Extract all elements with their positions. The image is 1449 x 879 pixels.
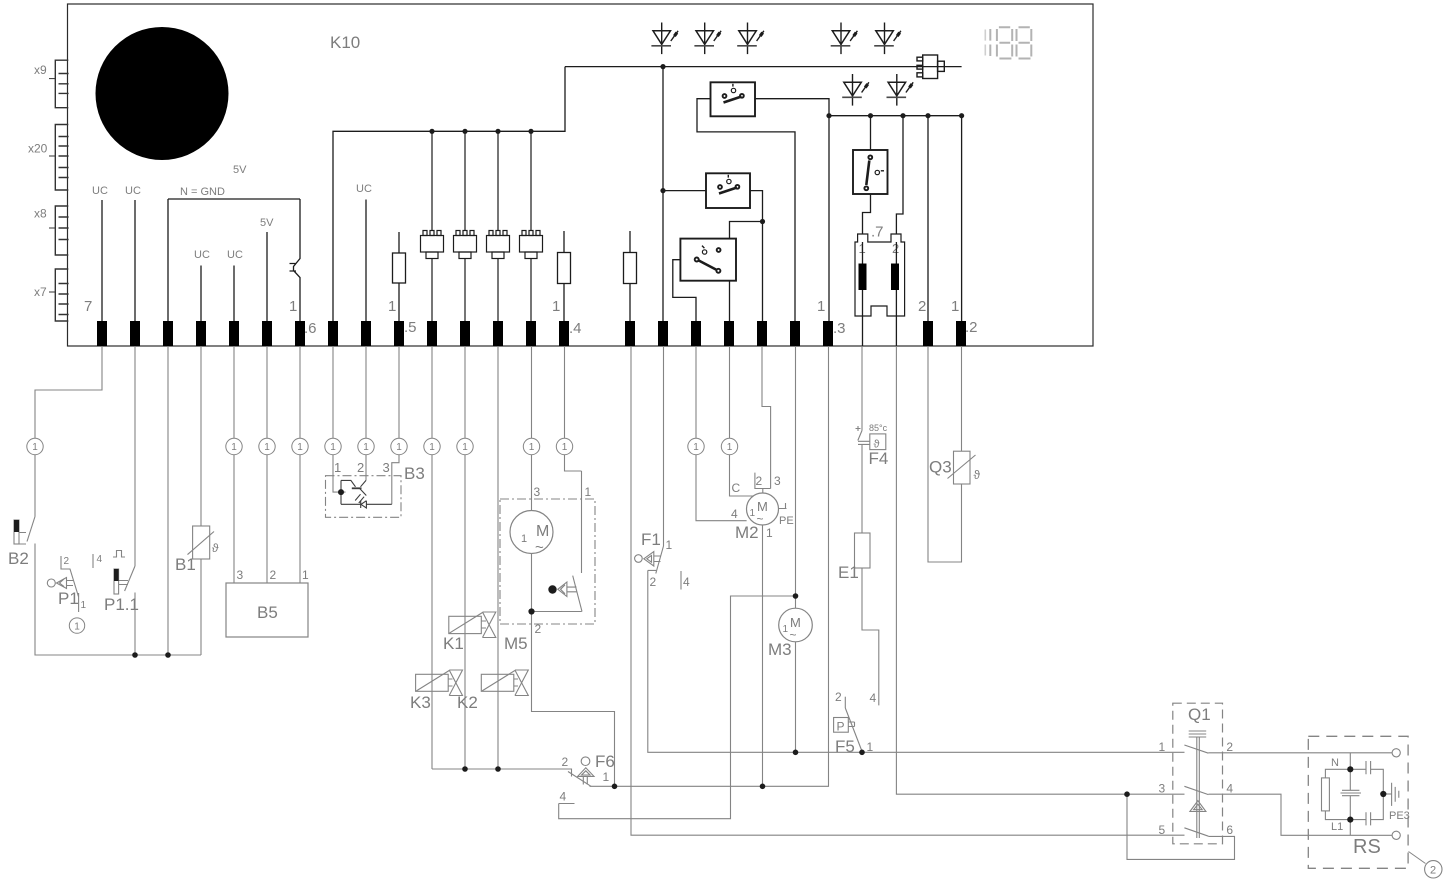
svg-text:7: 7 xyxy=(84,298,92,315)
F6 output line to pin828 riser xyxy=(590,346,829,786)
svg-text:PE3: PE3 xyxy=(1389,810,1410,822)
svg-text:3: 3 xyxy=(383,460,390,475)
svg-text:1: 1 xyxy=(32,442,38,453)
svg-text:F6: F6 xyxy=(595,752,615,771)
svg-text:~: ~ xyxy=(535,539,544,556)
svg-text:UC: UC xyxy=(194,249,210,261)
svg-text:4: 4 xyxy=(560,790,567,804)
svg-text:4: 4 xyxy=(683,575,690,589)
svg-text:N = GND: N = GND xyxy=(180,186,225,198)
svg-text:L1: L1 xyxy=(1331,821,1343,833)
M5.2 wire down to F6 line xyxy=(532,611,615,786)
wire bus2 to switch box xyxy=(870,116,872,150)
RS internals xyxy=(1322,753,1399,836)
svg-text:2: 2 xyxy=(357,460,364,475)
Q1 contact 1-2 xyxy=(1184,745,1208,753)
junction dots lower LED bus xyxy=(826,113,964,118)
top LED supply bus xyxy=(565,66,962,68)
svg-text:5V: 5V xyxy=(233,164,247,176)
svg-text:1: 1 xyxy=(334,460,341,475)
svg-text:1: 1 xyxy=(727,442,733,453)
svg-text:1: 1 xyxy=(429,442,435,453)
controller module K10 outline xyxy=(68,4,1094,346)
wire bus to pin 961 xyxy=(961,116,963,321)
seven segment display xyxy=(985,27,1031,58)
connector x20 xyxy=(49,125,69,191)
wire pin 234 to B5.3 xyxy=(233,346,235,583)
LED H5 xyxy=(874,23,901,55)
wire relay C left to pin 696 xyxy=(673,260,696,321)
svg-text:1: 1 xyxy=(388,298,396,315)
svg-text:x9: x9 xyxy=(34,63,47,77)
connector x7 xyxy=(49,269,69,321)
svg-text:1: 1 xyxy=(521,533,527,545)
F6 terminal 4 branch to M3 top xyxy=(559,596,796,819)
svg-text:2: 2 xyxy=(270,568,277,582)
wire pin 762 to M2.3 bracket xyxy=(762,346,771,489)
wire pin 267 to B5.2 xyxy=(266,346,268,583)
LED H3 xyxy=(737,23,764,55)
relay contact K-C box xyxy=(680,239,736,281)
svg-text:2: 2 xyxy=(918,298,926,315)
svg-text:1: 1 xyxy=(396,442,402,453)
X.7 pin 1 (black) xyxy=(859,264,867,291)
svg-text:B1: B1 xyxy=(175,555,196,574)
svg-text:2: 2 xyxy=(1226,740,1233,754)
wire bus to pin 828 xyxy=(828,116,830,321)
wire pin 465 through K1 to valve bus xyxy=(464,346,466,769)
junction dots external xyxy=(132,593,1130,797)
wire pin 498 through K2 to valve bus xyxy=(497,346,499,769)
net labels inside module xyxy=(92,164,372,261)
svg-text:1: 1 xyxy=(750,508,756,519)
svg-text:1: 1 xyxy=(603,770,610,784)
wire pin 432 through K3 to valve bus xyxy=(431,346,433,769)
svg-text:Q1: Q1 xyxy=(1188,705,1211,724)
svg-text:1: 1 xyxy=(363,442,369,453)
svg-text:x7: x7 xyxy=(34,285,47,299)
wire rings (connector bullets) xyxy=(27,438,738,454)
svg-text:2: 2 xyxy=(650,575,657,589)
wire bus to IC drivers xyxy=(333,67,565,321)
program disc (filled circle) xyxy=(96,27,229,160)
note circle 2 leader xyxy=(1409,852,1426,864)
F5 contact blade xyxy=(845,708,861,750)
LED H1 xyxy=(651,23,678,55)
thermal cutout Q3 xyxy=(948,451,976,484)
fill valve K1 xyxy=(449,612,496,638)
svg-text:2: 2 xyxy=(835,690,842,704)
svg-text:F5: F5 xyxy=(835,737,855,756)
svg-text:1: 1 xyxy=(562,442,568,453)
in-module wires group xyxy=(102,67,962,321)
wire pin 135 to P1.1 xyxy=(134,346,136,655)
E1 to F5 terminal 4 xyxy=(862,568,879,705)
wire bus to pin 928 xyxy=(927,116,929,321)
svg-text:P1: P1 xyxy=(58,589,79,608)
svg-text:M3: M3 xyxy=(768,640,792,659)
Q1 pin4 line to RS lower xyxy=(1208,794,1392,835)
svg-text:1: 1 xyxy=(264,442,270,453)
door switch B2 xyxy=(14,517,35,545)
junction dots on IC bus xyxy=(429,64,665,193)
svg-text:UC: UC xyxy=(227,249,243,261)
heater E1 xyxy=(855,533,871,568)
svg-text:2: 2 xyxy=(535,622,542,636)
wire pin4 UC stub xyxy=(200,266,202,322)
svg-text:1: 1 xyxy=(231,442,237,453)
relay contact K-B box xyxy=(706,173,750,208)
svg-text:3: 3 xyxy=(1159,782,1166,796)
svg-text:1: 1 xyxy=(766,526,773,540)
triac driver U1 xyxy=(421,131,444,321)
wire relay A right to bus2 xyxy=(755,99,829,116)
wire pin 300 to B5.1 xyxy=(299,346,301,583)
svg-text:K2: K2 xyxy=(457,693,478,712)
junction dot 762 xyxy=(760,219,765,224)
B3 junction dot xyxy=(338,489,344,495)
wire pin 729 to M2.C xyxy=(730,346,754,496)
Q1 contact 3-4 xyxy=(1184,786,1208,794)
M5 motor xyxy=(510,511,553,554)
svg-text:1: 1 xyxy=(289,298,297,315)
RS node dots xyxy=(1347,766,1353,772)
M2 PE stub xyxy=(779,503,787,509)
svg-text:x20: x20 xyxy=(28,142,48,156)
wire bus2 to connector X.7 pin2 xyxy=(896,116,903,234)
pressure switch F5 xyxy=(834,718,855,733)
M2 bracket terminals 2-3 xyxy=(755,473,771,493)
wire pin 928 down xyxy=(928,346,962,562)
resistor R-399 xyxy=(398,232,400,321)
svg-text:1: 1 xyxy=(462,442,468,453)
svg-text:3: 3 xyxy=(774,474,781,488)
svg-text:1: 1 xyxy=(951,298,959,315)
svg-text:.2: .2 xyxy=(965,319,978,336)
wire pin UC stub 234 xyxy=(233,266,235,322)
svg-text:K1: K1 xyxy=(443,634,464,653)
wire pin6 UC stub xyxy=(134,200,136,321)
Q1 pin3 to pin6 return loop xyxy=(1127,794,1235,859)
svg-text:1: 1 xyxy=(302,568,309,582)
svg-text:2: 2 xyxy=(64,556,70,567)
pressure switch P1.1 xyxy=(93,551,135,595)
wire pin 366 to B3.2 xyxy=(365,346,367,480)
svg-text:6: 6 xyxy=(1226,823,1233,837)
svg-text:F1: F1 xyxy=(641,530,661,549)
svg-text:M5: M5 xyxy=(504,634,528,653)
svg-text:2: 2 xyxy=(756,474,763,488)
Q1 pin2 line to RS xyxy=(1208,752,1392,754)
LED H6 xyxy=(842,74,869,106)
connector X.7 outline xyxy=(855,234,905,316)
svg-text:3: 3 xyxy=(237,568,244,582)
svg-text:5: 5 xyxy=(1159,823,1166,837)
Q1 contact 5-6 xyxy=(1184,828,1208,836)
svg-text:2: 2 xyxy=(892,241,899,256)
svg-text:K3: K3 xyxy=(410,693,431,712)
svg-text:UC: UC xyxy=(92,185,108,197)
wire pin 531 to M5.3 xyxy=(531,346,533,511)
LED H7 xyxy=(887,74,914,106)
connector x8 xyxy=(49,206,69,255)
F1 terminal4 stub xyxy=(680,571,682,590)
thermostat F4 xyxy=(856,426,886,450)
svg-text:.4: .4 xyxy=(569,320,582,337)
triac driver U2 xyxy=(454,131,477,321)
note circle 1 xyxy=(69,618,84,633)
valve K3 xyxy=(416,670,463,696)
svg-text:P: P xyxy=(837,720,845,734)
wire N=GND bracket xyxy=(168,199,300,321)
svg-text:RS: RS xyxy=(1353,836,1381,858)
F4 to E1 xyxy=(861,444,863,533)
svg-text:B5: B5 xyxy=(257,603,278,622)
valve K2 xyxy=(481,670,528,696)
F5 terminal 2 stub xyxy=(844,697,846,708)
lower LED bus xyxy=(829,115,962,117)
svg-text:1: 1 xyxy=(867,740,874,754)
wire X.7 pin1 through bottom xyxy=(862,242,864,346)
svg-text:2: 2 xyxy=(1430,865,1436,877)
motor protector F1 xyxy=(635,552,661,566)
F1 contact blade xyxy=(656,546,664,574)
svg-text:5V: 5V xyxy=(260,217,274,229)
svg-text:N: N xyxy=(1331,757,1339,769)
svg-text:1: 1 xyxy=(666,538,673,552)
wire pin 696 to M2.4 xyxy=(696,346,747,521)
resistor R-564 xyxy=(563,231,565,321)
X.7 pin 2 (black) xyxy=(891,264,899,291)
circulation motor M2 xyxy=(747,493,779,525)
wire pin 961 through Q3 xyxy=(961,346,963,451)
svg-text:B3: B3 xyxy=(404,464,425,483)
mains switch Q1 box xyxy=(1173,703,1223,844)
svg-text:C: C xyxy=(732,481,741,495)
wire pin 168 to bottom bus xyxy=(167,346,169,655)
wire pin 896 (X.7-2) to Q1.3 line xyxy=(896,346,1184,794)
wire B2 to bottom bus xyxy=(35,544,201,656)
F6 contact blade xyxy=(568,772,591,787)
wire relay B right to pin 762 xyxy=(750,191,763,321)
svg-text:1: 1 xyxy=(297,442,303,453)
overflow switch F6 xyxy=(578,757,594,785)
M5 motor junction dot xyxy=(528,608,534,614)
wire switch box to connector X.7 pin1 xyxy=(863,194,871,234)
wire pin 630 to Q1.5 line xyxy=(631,346,1185,835)
note circle 2 xyxy=(1425,861,1442,878)
svg-text:ϑ: ϑ xyxy=(974,468,981,482)
NTC sensor B1 xyxy=(188,526,215,559)
wire pin 201 through B1 xyxy=(200,346,202,655)
svg-text:1: 1 xyxy=(81,600,87,611)
svg-text:F4: F4 xyxy=(869,449,889,468)
svg-text:3: 3 xyxy=(534,485,541,499)
svg-text:85°c: 85°c xyxy=(869,423,888,433)
svg-text:4: 4 xyxy=(97,554,103,565)
svg-text:1: 1 xyxy=(330,442,336,453)
svg-text:B2: B2 xyxy=(8,549,29,568)
svg-text:x8: x8 xyxy=(34,207,47,221)
wire pin7 UC stub xyxy=(101,200,103,321)
svg-text:1: 1 xyxy=(529,442,535,453)
wire pin7 to B2 branch xyxy=(35,346,102,517)
LED H2 xyxy=(694,23,721,55)
wire 663 vertical xyxy=(662,67,664,321)
valve bus to F6 xyxy=(432,769,572,777)
wire pin 795 to M3 xyxy=(795,346,797,752)
wire pin 564 to M5.1 xyxy=(565,346,582,471)
svg-text:.6: .6 xyxy=(304,320,317,337)
svg-text:K10: K10 xyxy=(330,33,360,52)
svg-text:.3: .3 xyxy=(833,320,846,337)
Q1 internals xyxy=(1189,731,1207,838)
svg-text:1: 1 xyxy=(693,442,699,453)
wire pin 862 (X.7-1) to F4 xyxy=(861,346,863,431)
junction dot relay B tap xyxy=(660,188,665,193)
svg-text:2: 2 xyxy=(562,755,569,769)
relay contact K-A box xyxy=(711,82,756,116)
spray motor M3 xyxy=(779,608,813,642)
RS terminal circles xyxy=(1392,749,1400,757)
svg-text:1: 1 xyxy=(1159,740,1166,754)
wire pin 663 to F1 xyxy=(663,346,665,546)
pressure sensor B5 xyxy=(226,583,308,637)
heater switch box (vertical) xyxy=(853,150,888,194)
svg-text:PE: PE xyxy=(779,515,794,527)
svg-text:M: M xyxy=(536,523,549,540)
resistor R-630 xyxy=(629,231,631,321)
M5 thermal dot xyxy=(548,585,556,593)
wire tap to relay C xyxy=(730,222,763,239)
svg-text:.5: .5 xyxy=(404,319,417,336)
board edge connector pins (black) xyxy=(97,321,966,346)
svg-text:4: 4 xyxy=(1226,782,1233,796)
triac driver U4 xyxy=(520,131,543,321)
svg-text:1: 1 xyxy=(817,298,825,315)
svg-text:1: 1 xyxy=(585,485,592,499)
svg-text:E1: E1 xyxy=(838,563,859,582)
svg-text:UC: UC xyxy=(125,185,141,197)
svg-text:1: 1 xyxy=(552,298,560,315)
junction dot LED bus at 663 xyxy=(660,64,665,69)
svg-text:1: 1 xyxy=(783,624,789,635)
B3 internals xyxy=(341,480,392,508)
svg-text:4: 4 xyxy=(870,691,877,705)
pressure switch P1 xyxy=(47,556,78,612)
svg-text:.7: .7 xyxy=(871,224,884,241)
wire UC stub 366 xyxy=(365,200,367,322)
M2 bottom terminal 1 down to F6 line xyxy=(762,525,764,786)
wire pin 333 to B3.1 xyxy=(333,346,346,492)
svg-text:P1.1: P1.1 xyxy=(104,595,139,614)
wire relay A left loop to pin 795 xyxy=(697,99,795,321)
svg-text:Q3: Q3 xyxy=(929,458,952,477)
M5 thermal contact xyxy=(532,471,583,612)
buzzer xyxy=(917,55,944,79)
wire relay B left xyxy=(663,190,706,192)
optocoupler B3 box xyxy=(326,476,402,518)
wire 5V stub 267 xyxy=(266,232,268,321)
connector x9 xyxy=(49,60,69,107)
svg-text:1: 1 xyxy=(74,622,80,633)
svg-text:UC: UC xyxy=(356,183,372,195)
mains filter RS box xyxy=(1308,736,1408,868)
wire pin 399 to B3.3 xyxy=(392,346,399,504)
F1 terminal2 down to Q1.1 line xyxy=(648,570,1185,752)
drain pump M5 box xyxy=(500,499,595,624)
zener hook on GND leg 300 xyxy=(290,199,301,321)
triac driver U3 xyxy=(487,131,510,321)
svg-text:M2: M2 xyxy=(735,523,759,542)
svg-text:4: 4 xyxy=(731,507,738,521)
wire relay C bottom to pin 729 xyxy=(729,281,731,321)
pin number labels on board edge xyxy=(84,298,978,337)
LED H4 xyxy=(831,23,858,55)
wire X.7 pin2 through bottom xyxy=(895,242,897,346)
